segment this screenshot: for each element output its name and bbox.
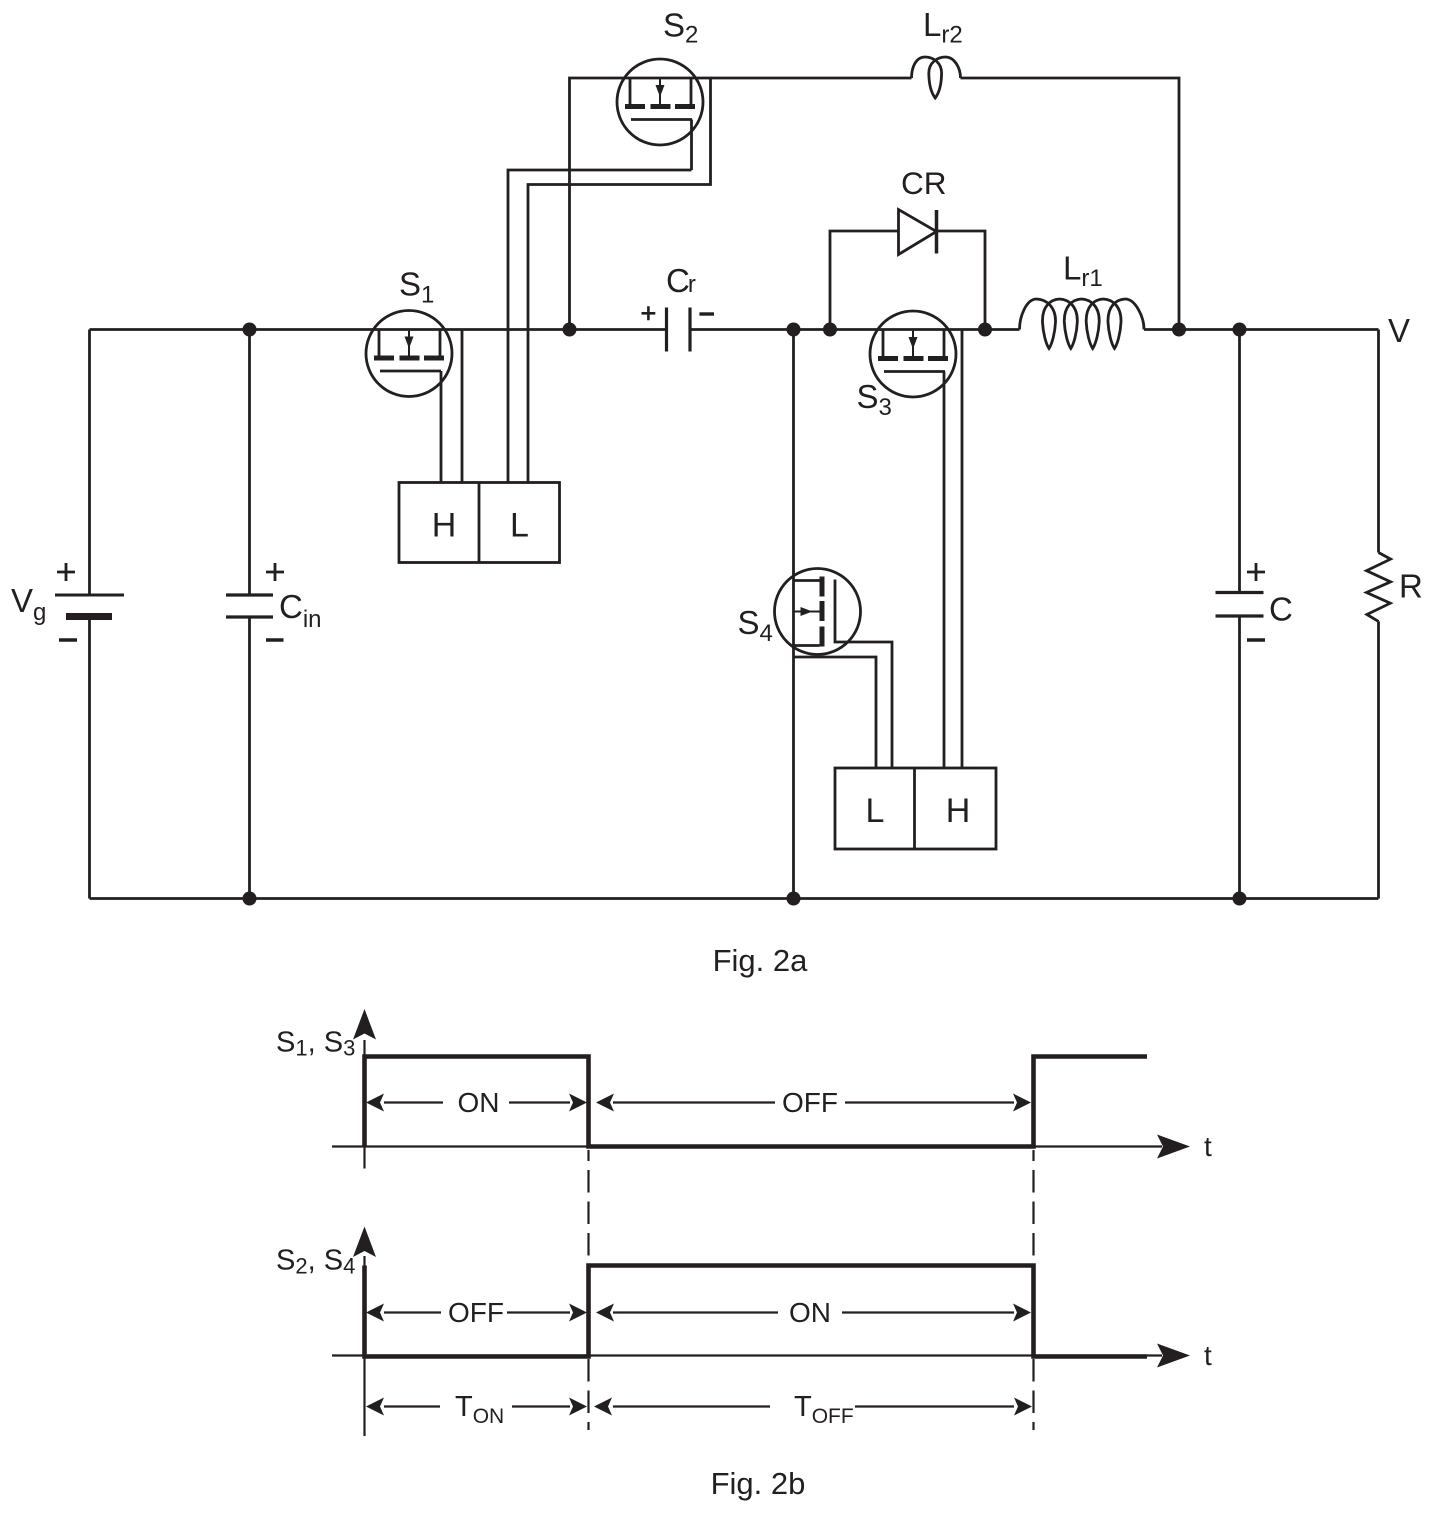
waveform S1,S3 [365, 1057, 1148, 1147]
svg-text:t: t [1204, 1131, 1212, 1162]
transistor S1 [366, 311, 452, 397]
node dot output bottom [1233, 892, 1247, 906]
waveform S2,S4 [365, 1266, 1148, 1357]
wire main top rail left segment [90, 328, 667, 331]
svg-text:L: L [510, 507, 529, 545]
axis S2,S4 time [332, 1354, 1162, 1356]
label C minus sign [1247, 638, 1265, 641]
driver box L|H for S4/S3 [835, 768, 996, 849]
capacitor Cin [226, 595, 273, 617]
wire main top rail mid segment [691, 328, 1020, 331]
svg-text:t: t [1204, 1340, 1212, 1371]
transistor S2 [617, 59, 703, 145]
arrowheads OFF top [596, 1094, 614, 1112]
arrowheads ON bottom [596, 1304, 614, 1322]
wire S3 gate drop [943, 372, 946, 769]
wire R branch lower [1377, 621, 1380, 898]
wire S3 source drop [961, 330, 964, 769]
inductor Lr2 [912, 57, 961, 98]
wire CR left leg [830, 231, 899, 330]
label Vg minus sign [59, 638, 77, 641]
arrowhead axis2 t [1157, 1344, 1190, 1368]
node dot S2 loop [563, 323, 577, 337]
wire S2 gate run to L driver [508, 120, 692, 483]
arrowhead axis1 up [353, 1009, 376, 1040]
node dot input bottom [243, 892, 257, 906]
label Cin minus sign [266, 638, 284, 641]
svg-text:Fig. 2b: Fig. 2b [711, 1466, 806, 1501]
diode CR [899, 210, 937, 255]
wire R branch upper [1377, 330, 1380, 553]
svg-text:H: H [946, 792, 971, 830]
wire Vg branch upper [88, 330, 91, 594]
wire S4 branch vertical [792, 330, 795, 899]
dashed guide line at TON [587, 1150, 589, 1430]
wire node to S2 top loop [570, 78, 912, 330]
capacitor C [1216, 593, 1264, 617]
node dot output top [1233, 323, 1247, 337]
svg-text:CR: CR [901, 165, 947, 201]
node dot CR left [823, 323, 837, 337]
svg-text:ON: ON [789, 1297, 831, 1328]
dimension line TON [384, 1405, 570, 1407]
axis S2,S4 vertical [363, 1256, 365, 1436]
wire Vg branch lower [88, 620, 91, 899]
dashed guide line at period end [1032, 1150, 1034, 1430]
svg-text:V: V [1388, 312, 1410, 349]
node dot S4 bottom [787, 892, 801, 906]
battery Vg [55, 595, 124, 617]
wire bottom rail [90, 897, 1379, 900]
label C plus sign [1247, 563, 1265, 581]
wire S1 gate drop [440, 371, 443, 483]
wire main top rail right segment [1144, 328, 1379, 331]
arrowheads TON [366, 1398, 384, 1416]
arrowhead axis1 t [1157, 1135, 1190, 1159]
dimension line OFF top [613, 1101, 1014, 1103]
transistor S3 [870, 311, 956, 397]
axis S1,S3 vertical [363, 1040, 365, 1169]
dimension line OFF bottom [384, 1311, 570, 1313]
transistor S4 [775, 569, 861, 655]
label Cr plus sign [642, 306, 656, 320]
wire Lr2 to right corner down [961, 78, 1180, 330]
wire CR right leg [937, 231, 986, 330]
svg-text:Fig. 2a: Fig. 2a [713, 943, 809, 978]
svg-text:ON: ON [458, 1087, 500, 1118]
wire S2 source run to L driver [528, 78, 711, 483]
axis S1,S3 time [332, 1145, 1162, 1147]
node dot CR right [978, 323, 992, 337]
resistor R [1367, 553, 1391, 622]
node dot input top [243, 323, 257, 337]
svg-text:C: C [1269, 591, 1293, 628]
wire S4 gate run to L driver [835, 641, 892, 769]
wire C branch lower [1238, 618, 1241, 899]
label Cr minus sign [699, 312, 714, 315]
dimension line ON bottom [613, 1311, 1014, 1313]
svg-text:OFF: OFF [782, 1087, 838, 1118]
wire C branch upper [1238, 330, 1241, 592]
dimension line ON top [384, 1101, 570, 1103]
wire S4 source run to L driver [794, 657, 877, 768]
node dot S4 top [787, 323, 801, 337]
inductor Lr1 [1020, 299, 1145, 349]
dimension line TOFF [613, 1405, 1014, 1407]
label Vg plus sign [57, 563, 75, 581]
wire Cin branch lower [248, 619, 251, 899]
node dot Lr2 return [1172, 323, 1186, 337]
svg-text:OFF: OFF [448, 1297, 504, 1328]
wire S1 source drop [461, 330, 464, 483]
driver box H|L for S1/S2 [399, 483, 560, 563]
arrowheads TOFF [594, 1398, 612, 1416]
wire Cin branch upper [248, 330, 251, 594]
arrowheads ON top [366, 1094, 384, 1112]
capacitor Cr [667, 308, 691, 352]
svg-text:L: L [866, 792, 885, 830]
arrowheads OFF bottom [366, 1304, 384, 1322]
svg-text:R: R [1399, 568, 1423, 605]
svg-text:H: H [432, 507, 457, 545]
label Cin plus sign [266, 563, 284, 581]
arrowhead axis2 up [353, 1227, 376, 1258]
